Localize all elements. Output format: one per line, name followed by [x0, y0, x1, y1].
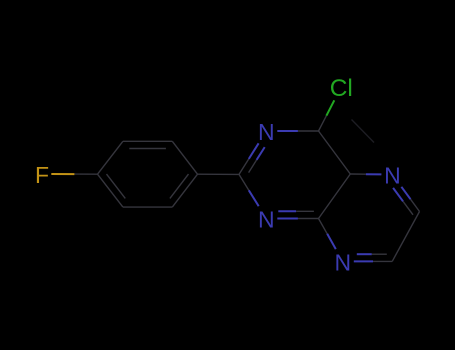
svg-text:N: N	[258, 119, 275, 145]
svg-text:Cl: Cl	[330, 75, 353, 102]
bond C4-Cl, green half near Cl	[319, 100, 335, 131]
bond N8-C8a single, blue half near N8	[319, 219, 336, 250]
bond C2-N3 single, blue half near N3	[239, 174, 259, 206]
bond C-C phenyl bottom edge	[123, 206, 172, 208]
bond C8a-C4a ring fusion single	[319, 174, 351, 219]
svg-text:N: N	[334, 250, 351, 276]
bond N3=C8a double, blue half near N3	[277, 211, 318, 218]
svg-text:F: F	[35, 162, 49, 188]
svg-text:N: N	[384, 163, 401, 189]
bond F-C (fluorophenyl C-F), gold half near F	[51, 173, 97, 175]
bond C6-C7 single	[392, 212, 419, 262]
bond C2=N1 double, blue half near N1	[239, 143, 265, 174]
bond N1-C4 single, blue half near N1	[277, 130, 318, 132]
faint line artifact above C4a-N5	[352, 120, 375, 143]
bond C=C phenyl right-bottom edge (double)	[170, 174, 198, 207]
bond C4a-N5 single, blue half near N5	[350, 173, 381, 175]
svg-text:N: N	[258, 207, 275, 233]
bond C=C phenyl left-bottom edge (double)	[98, 174, 126, 207]
bond C-C phenyl left-top edge	[98, 141, 123, 174]
bond C7=N8 double, blue half near N8	[354, 254, 392, 261]
bond C-C phenyl right-top edge	[172, 141, 197, 174]
bond phenyl-C2 biaryl link	[198, 173, 240, 175]
bond C=C phenyl top edge (double)	[123, 141, 172, 148]
bond N5=C6 double, blue half near N5	[393, 187, 419, 215]
bond C4-C4a (drawn single in reference)	[319, 131, 351, 174]
